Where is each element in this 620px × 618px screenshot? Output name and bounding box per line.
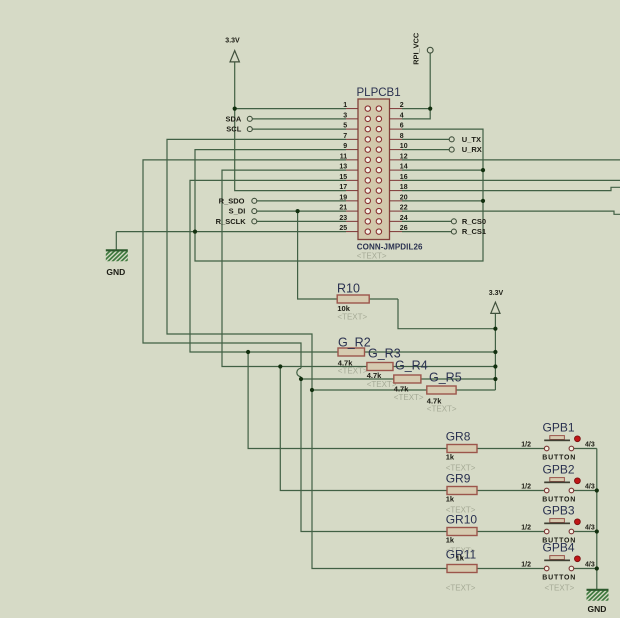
svg-text:1/2: 1/2 (521, 483, 531, 490)
svg-text:26: 26 (400, 225, 408, 232)
svg-text:16: 16 (400, 174, 408, 181)
svg-text:3.3V: 3.3V (489, 290, 504, 297)
svg-text:19: 19 (339, 194, 347, 201)
svg-text:GR10: GR10 (446, 513, 478, 527)
svg-text:14: 14 (400, 164, 408, 171)
svg-text:U_TX: U_TX (462, 135, 481, 144)
svg-text:<TEXT>: <TEXT> (337, 313, 367, 322)
svg-text:SCL: SCL (226, 125, 241, 134)
svg-text:<TEXT>: <TEXT> (338, 367, 368, 376)
svg-text:SDA: SDA (225, 114, 241, 123)
svg-text:GPB3: GPB3 (543, 503, 575, 517)
svg-text:4.7k: 4.7k (367, 371, 382, 380)
svg-text:1k: 1k (446, 536, 455, 545)
svg-text:<TEXT>: <TEXT> (394, 393, 424, 402)
svg-text:U_RX: U_RX (462, 145, 482, 154)
svg-text:4/3: 4/3 (585, 442, 595, 449)
svg-text:15: 15 (339, 174, 347, 181)
svg-text:G_R4: G_R4 (395, 359, 428, 373)
svg-text:GND: GND (106, 267, 125, 277)
svg-text:5: 5 (343, 123, 347, 130)
svg-text:G_R5: G_R5 (429, 371, 462, 385)
svg-text:6: 6 (400, 123, 404, 130)
svg-text:GND: GND (588, 604, 607, 614)
svg-text:BUTTON: BUTTON (542, 575, 576, 582)
svg-text:R_CS0: R_CS0 (462, 217, 486, 226)
svg-text:21: 21 (339, 205, 347, 212)
svg-text:1: 1 (343, 102, 347, 109)
svg-text:1k: 1k (456, 554, 465, 563)
svg-text:<TEXT>: <TEXT> (545, 584, 575, 593)
svg-text:1/2: 1/2 (521, 561, 531, 568)
svg-text:<TEXT>: <TEXT> (427, 405, 457, 414)
svg-text:23: 23 (339, 215, 347, 222)
svg-text:<TEXT>: <TEXT> (446, 584, 476, 593)
svg-text:24: 24 (400, 215, 408, 222)
svg-text:9: 9 (343, 143, 347, 150)
svg-text:RPI_VCC: RPI_VCC (411, 32, 420, 65)
svg-text:GPB1: GPB1 (543, 420, 575, 434)
svg-text:R_SDO: R_SDO (219, 196, 245, 205)
svg-text:1k: 1k (446, 453, 455, 462)
svg-text:R_SCLK: R_SCLK (216, 217, 247, 226)
svg-text:1/2: 1/2 (521, 441, 531, 448)
svg-text:GPB2: GPB2 (543, 462, 575, 476)
svg-text:GR9: GR9 (446, 472, 471, 486)
svg-text:3: 3 (343, 112, 347, 119)
svg-text:12: 12 (400, 153, 408, 160)
svg-text:4: 4 (400, 112, 404, 119)
svg-text:1k: 1k (446, 495, 455, 504)
svg-text:2: 2 (400, 102, 404, 109)
svg-text:R_CS1: R_CS1 (462, 227, 486, 236)
svg-text:4/3: 4/3 (585, 484, 595, 491)
svg-text:R10: R10 (337, 282, 360, 296)
svg-text:10: 10 (400, 143, 408, 150)
svg-text:20: 20 (400, 194, 408, 201)
svg-text:8: 8 (400, 133, 404, 140)
svg-text:<TEXT>: <TEXT> (357, 252, 387, 261)
svg-text:4/3: 4/3 (585, 562, 595, 569)
svg-text:22: 22 (400, 205, 408, 212)
svg-text:GR8: GR8 (446, 430, 471, 444)
svg-text:11: 11 (340, 153, 348, 160)
svg-text:4/3: 4/3 (585, 525, 595, 532)
svg-text:BUTTON: BUTTON (542, 455, 576, 462)
svg-text:PLPCB1: PLPCB1 (357, 87, 401, 99)
svg-text:GPB4: GPB4 (543, 540, 575, 554)
svg-text:1/2: 1/2 (521, 524, 531, 531)
svg-text:17: 17 (339, 184, 347, 191)
svg-text:<TEXT>: <TEXT> (367, 380, 397, 389)
svg-text:7: 7 (343, 133, 347, 140)
svg-text:3.3V: 3.3V (225, 37, 240, 44)
svg-text:S_DI: S_DI (229, 207, 246, 216)
svg-text:25: 25 (339, 225, 347, 232)
svg-text:G_R2: G_R2 (338, 336, 371, 350)
svg-text:18: 18 (400, 184, 408, 191)
svg-text:CONN-JMPDIL26: CONN-JMPDIL26 (357, 243, 423, 252)
svg-text:13: 13 (339, 164, 347, 171)
